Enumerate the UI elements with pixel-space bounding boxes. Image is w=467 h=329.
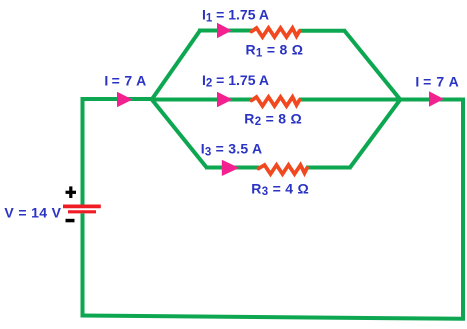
svg-text:R2 = 8 Ω: R2 = 8 Ω (244, 110, 302, 128)
resistor R2 (252, 97, 300, 106)
wire right vertical (461, 98, 465, 319)
wire top branch falling diagonal (345, 31, 402, 101)
svg-text:I2 = 1.75 A: I2 = 1.75 A (202, 72, 269, 90)
wire left vertical bottom segment (81, 214, 85, 318)
node right junction (399, 98, 401, 100)
current arrow middle branch I2 (217, 92, 233, 107)
wire bottom rail (81, 316, 466, 319)
svg-text:R3 = 4 Ω: R3 = 4 Ω (251, 180, 309, 198)
wire top-left horizontal (I=7A feed) (81, 97, 153, 101)
wire bottom branch right horizontal (306, 166, 352, 170)
wire left vertical top segment (81, 98, 85, 206)
battery V bottom plate (-) (68, 210, 96, 213)
resistor R3 (259, 165, 308, 174)
wire bottom branch left horizontal (205, 166, 259, 170)
svg-text:R1 = 8 Ω: R1 = 8 Ω (246, 41, 304, 59)
wire middle branch right segment (299, 98, 465, 102)
current arrow right I=7A (429, 91, 444, 106)
svg-text:V = 14 V: V = 14 V (4, 204, 61, 220)
node left junction (151, 98, 153, 100)
wire top branch right horizontal (299, 29, 346, 33)
battery minus sign (66, 219, 75, 223)
battery V top plate (+) (63, 204, 101, 208)
wire bottom branch falling diagonal (151, 99, 207, 169)
wire top branch rising diagonal (151, 31, 200, 101)
current arrow left I=7A (117, 92, 133, 107)
wire bottom branch rising diagonal (350, 99, 401, 168)
svg-text:I = 7 A: I = 7 A (415, 74, 459, 90)
wire middle branch left segment (152, 98, 253, 102)
svg-text:I1 = 1.75 A: I1 = 1.75 A (202, 6, 269, 24)
svg-text:I3 = 3.5 A: I3 = 3.5 A (201, 141, 263, 159)
battery plus sign (66, 186, 77, 198)
resistor R1 (252, 28, 300, 37)
wire top branch left horizontal (198, 29, 253, 33)
current arrow top branch I1 (217, 23, 232, 38)
svg-text:I = 7 A: I = 7 A (104, 73, 146, 89)
current arrow bottom branch I3 (222, 160, 239, 176)
